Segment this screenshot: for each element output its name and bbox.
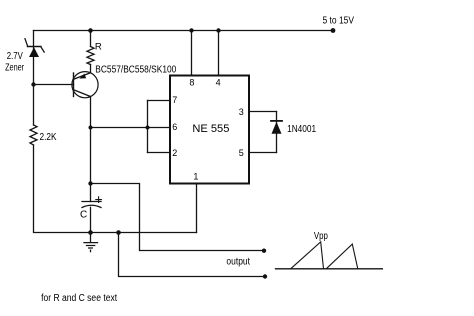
junction dot collector node [88, 181, 92, 185]
wire bracket vertical 7-6-2 [147, 101, 149, 153]
wire diode branch vertical [276, 112, 278, 153]
junction dot pin 4 branch [216, 28, 220, 32]
svg-text:for R and C see text: for R and C see text [41, 293, 117, 304]
node output 1 dot [262, 249, 266, 253]
wire pin 6 [91, 127, 171, 129]
zener D1 triangle [29, 47, 39, 57]
svg-text:Zener: Zener [5, 63, 24, 74]
wire R to emitter [90, 65, 92, 73]
svg-text:4: 4 [216, 78, 221, 88]
wire left rail lower + ground bus [34, 145, 197, 233]
waveform ramp 1 [291, 242, 324, 269]
junction dot pin 6 node [89, 126, 93, 130]
svg-text:C: C [80, 210, 87, 221]
ground symbol [84, 233, 98, 252]
wire below capacitor [90, 207, 92, 232]
svg-text:8: 8 [189, 78, 194, 88]
svg-text:NE 555: NE 555 [192, 123, 229, 135]
svg-text:output: output [226, 256, 250, 267]
transistor Q1 circle [72, 72, 98, 98]
wire R branch upper [90, 31, 92, 47]
wire ground node to output 2 [119, 233, 266, 277]
capacitor C plus sign [96, 197, 102, 203]
wire top supply rail [34, 30, 334, 32]
svg-text:1N4001: 1N4001 [287, 124, 316, 135]
svg-text:Vpp: Vpp [314, 231, 328, 242]
junction dot base node [31, 82, 35, 86]
wire pin 3 [250, 111, 277, 113]
svg-text:2.7V: 2.7V [7, 51, 23, 62]
svg-text:R: R [95, 41, 102, 52]
wire collector vertical [90, 97, 92, 202]
svg-text:2.2K: 2.2K [40, 132, 57, 143]
junction dot output branch node [116, 230, 121, 235]
svg-text:2: 2 [172, 148, 177, 158]
junction dot pin 8 branch [189, 28, 193, 32]
wire pin 8 [191, 31, 193, 75]
diode D2 triangle [272, 122, 282, 134]
svg-text:7: 7 [172, 95, 177, 105]
waveform ramp 2 [326, 244, 358, 269]
svg-text:BC557/BC558/SK100: BC557/BC558/SK100 [95, 65, 176, 76]
capacitor C curved plate [82, 205, 101, 207]
zener D1 bar tick right [41, 47, 44, 52]
wire pin 7 stub [148, 100, 171, 102]
wire pin 4 [218, 31, 220, 75]
wire left rail upper (zener branch) [33, 31, 35, 126]
resistor 2.2K zigzag [30, 125, 37, 145]
junction dot R branch [88, 28, 93, 33]
svg-text:6: 6 [172, 122, 177, 132]
diode D2 cathode bar [271, 120, 282, 122]
wire pin 1 [196, 185, 198, 233]
transistor Q1 base bar [73, 73, 75, 97]
wire collector node to output 1 [91, 184, 265, 251]
svg-text:5 to 15V: 5 to 15V [323, 16, 355, 27]
junction dot capacitor ground node [88, 230, 93, 235]
node output 2 dot [263, 274, 267, 278]
zener D1 cathode bar [28, 46, 41, 48]
wire pin 5 [250, 152, 277, 154]
svg-text:5: 5 [239, 148, 244, 158]
junction dot bracket node [146, 126, 150, 130]
waveform baseline [276, 268, 383, 270]
resistor R zigzag [87, 47, 94, 65]
IC U1 NE555 box [170, 76, 249, 184]
transistor Q1 collector diagonal [74, 90, 90, 97]
svg-text:1: 1 [193, 171, 198, 181]
transistor Q1 emitter arrow [79, 74, 86, 79]
wire pin 2 stub [148, 152, 171, 154]
wire base [34, 84, 74, 86]
transistor Q1 emitter diagonal [74, 73, 90, 79]
svg-text:3: 3 [239, 107, 244, 117]
node supply end dot [331, 28, 336, 33]
capacitor C top plate [82, 201, 101, 203]
zener D1 bar tick left [25, 39, 28, 47]
